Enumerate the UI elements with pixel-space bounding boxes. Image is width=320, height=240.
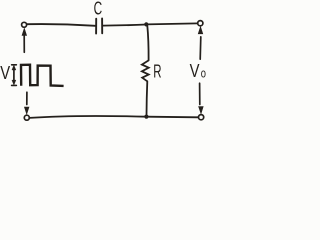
node terminal bottom-left <box>24 115 29 120</box>
resistor R top lead <box>147 25 148 60</box>
svg-text:C: C <box>94 0 103 19</box>
capacitor C right plate <box>101 19 103 34</box>
arrow pointing down to bottom-left terminal <box>24 92 29 114</box>
wire junction to top-right terminal <box>146 23 197 24</box>
arrow pointing up to top-right terminal (Vo plus lead) <box>198 27 203 60</box>
node terminal top-right <box>198 21 203 26</box>
junction dot bottom <box>144 115 148 119</box>
square wave waveform of source <box>21 65 64 86</box>
svg-text:o: o <box>201 67 206 81</box>
wire top-left segment <box>27 24 95 26</box>
node terminal bottom-right <box>199 115 204 120</box>
arrow pointing down to bottom-right terminal (Vo minus lead) <box>199 83 204 114</box>
svg-text:V: V <box>0 62 11 83</box>
svg-text:R: R <box>153 62 161 82</box>
resistor R bottom lead <box>146 81 149 115</box>
svg-text:V: V <box>190 61 201 82</box>
wire capacitor to junction <box>103 25 146 26</box>
wire bottom-left segment <box>30 116 147 118</box>
amplitude dimension arrow (double-headed) <box>12 65 17 86</box>
capacitor C left plate <box>95 19 97 34</box>
node terminal top-left <box>22 22 27 27</box>
resistor R zigzag body <box>142 60 149 81</box>
wire bottom-right segment <box>146 116 198 119</box>
arrow pointing up to top-left terminal <box>22 28 27 52</box>
junction dot top <box>144 22 148 26</box>
